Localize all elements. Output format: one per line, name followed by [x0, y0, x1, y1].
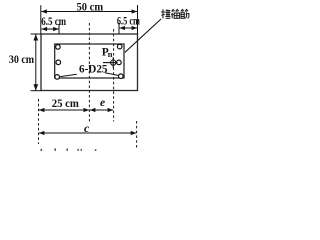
6-D25 leader to bottom-right bar	[105, 73, 119, 76]
6.5cm right dimension line	[119, 27, 137, 29]
30cm bottom arrow	[33, 84, 38, 90]
load point Pn crosshair	[103, 57, 118, 68]
right projection dashed line (c datum)	[136, 121, 138, 149]
svg-text:c: c	[84, 121, 90, 135]
centerline (dashed, section center)	[88, 23, 90, 122]
left projection dashed line (c / 25cm datum)	[38, 99, 40, 144]
rebar circle top-right	[117, 44, 122, 49]
char gu (hoop)	[171, 9, 179, 18]
e dimension line	[90, 109, 113, 111]
25cm dimension line	[39, 109, 89, 111]
char jin (stirrup/tendon)	[181, 9, 189, 18]
char heng (horizontal-tie)	[161, 9, 171, 18]
30cm top arrow	[33, 34, 38, 40]
column section outer rectangle	[41, 34, 138, 91]
6.5cm left dimension line	[42, 28, 59, 30]
rebar circle mid-left	[56, 60, 61, 65]
c dimension line	[39, 132, 136, 134]
rebar circle bottom-left	[55, 75, 60, 80]
50cm dimension right extension line	[137, 5, 139, 34]
30cm dimension line with end ticks	[31, 34, 42, 91]
svg-text:6.5 cm: 6.5 cm	[41, 16, 66, 28]
cropped caption remnants at bottom edge	[41, 148, 97, 151]
svg-text:6.5 cm: 6.5 cm	[117, 16, 140, 28]
svg-text:n: n	[108, 49, 113, 59]
svg-text:50 cm: 50 cm	[77, 0, 104, 13]
load line through Pn (dashed)	[113, 29, 115, 122]
50cm dimension line	[41, 11, 137, 13]
svg-text:30 cm: 30 cm	[9, 52, 34, 66]
6.5cm right extension line	[118, 23, 120, 34]
hoop tie leader line	[125, 19, 161, 52]
rebar circle top-left	[56, 45, 61, 50]
6.5cm left extension line	[58, 24, 60, 34]
hoop tie label (CJK drawn as strokes)	[161, 9, 189, 18]
stirrup (inner tie rectangle)	[55, 44, 124, 78]
6-D25 leader to bottom-left bar	[60, 74, 77, 76]
50cm dimension left extension line	[40, 5, 42, 34]
svg-text:6-D25: 6-D25	[79, 61, 108, 75]
svg-text:e: e	[100, 97, 105, 109]
rebar circle bottom-right	[119, 74, 124, 79]
svg-text:25 cm: 25 cm	[52, 96, 79, 110]
rebar circle mid-right	[117, 60, 122, 65]
